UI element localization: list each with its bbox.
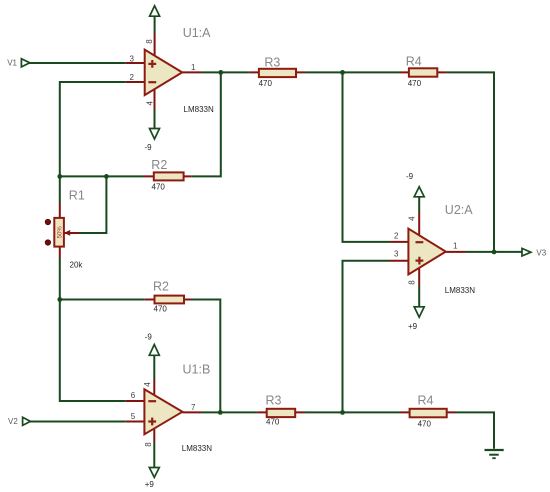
- pin U2:A pin3 stub: [390, 260, 408, 262]
- power +9 arrow below U2:A: [414, 307, 424, 317]
- svg-text:-9: -9: [145, 333, 153, 342]
- svg-text:1: 1: [453, 242, 458, 251]
- power +9 arrow above U1:A: [150, 6, 160, 16]
- svg-text:470: 470: [418, 420, 432, 429]
- svg-text:470: 470: [266, 418, 280, 427]
- svg-text:U2:A: U2:A: [445, 203, 473, 217]
- svg-text:R4: R4: [406, 55, 422, 69]
- junction R3/R4 top node: [340, 70, 345, 75]
- svg-text:3: 3: [394, 250, 399, 259]
- wire U1:B +9 power stem: [153, 442, 155, 468]
- potentiometer R1 terminal dot bottom: [45, 240, 50, 245]
- svg-text:R2: R2: [153, 279, 169, 293]
- wire U1:B -9 power stem: [153, 355, 155, 379]
- potentiometer R1 terminal dot top: [45, 219, 50, 224]
- wire R2 top right to U1:A output column: [191, 72, 221, 176]
- wire U1:A +9 power stem: [154, 16, 156, 33]
- pin U2:A pin8 stub: [418, 268, 420, 286]
- resistor R3 bottom: [267, 409, 296, 417]
- wire R1 wiper to node: [79, 176, 106, 233]
- pin U1:B pin4 stub: [153, 380, 155, 396]
- svg-text:3: 3: [130, 55, 135, 64]
- terminal V2: [23, 417, 31, 425]
- wire U2:A +9 power stem: [418, 286, 420, 307]
- wire U1:A -9 power stem: [154, 110, 156, 129]
- wire U2:A output to V3: [466, 251, 522, 253]
- svg-text:4: 4: [146, 101, 155, 106]
- svg-text:V3: V3: [536, 248, 546, 257]
- svg-text:8: 8: [144, 442, 153, 447]
- svg-text:LM833N: LM833N: [184, 105, 214, 114]
- op-amp U1:A: [145, 50, 183, 96]
- wire R1 top branch: [59, 176, 61, 204]
- svg-text:R3: R3: [264, 56, 280, 70]
- pin R2 bottom stubs: [145, 299, 192, 301]
- wire U2:A -9 power stem: [418, 197, 420, 212]
- svg-text:LM833N: LM833N: [445, 286, 475, 295]
- wire U1:A pin2 feedback left column: [60, 82, 126, 176]
- pin R1 bottom stub: [59, 246, 61, 258]
- wire R3 bottom to R4 bottom: [305, 411, 401, 413]
- pin U1:A pin1 output stub: [182, 71, 201, 73]
- svg-text:50%: 50%: [58, 226, 64, 239]
- svg-text:LM833N: LM833N: [182, 444, 212, 453]
- svg-text:6: 6: [131, 391, 136, 400]
- op-amp U1:B: [144, 389, 182, 434]
- ground symbol: [485, 450, 504, 458]
- wire R4 bottom right to ground: [456, 412, 494, 448]
- svg-text:-9: -9: [406, 172, 414, 181]
- svg-text:U1:A: U1:A: [183, 26, 211, 40]
- svg-text:470: 470: [408, 79, 422, 88]
- pin R1 wiper stub: [64, 232, 79, 234]
- wire R2 bottom right to U1:B output column: [192, 300, 221, 413]
- svg-text:R1: R1: [69, 188, 85, 202]
- pin R3 top stubs: [249, 71, 305, 73]
- resistor R2 top: [154, 172, 184, 180]
- wire V2 to U1:B pin5: [30, 421, 126, 423]
- pin U1:B pin5 stub: [126, 421, 145, 423]
- resistor R2 bottom: [155, 296, 185, 304]
- svg-text:4: 4: [143, 382, 152, 387]
- resistor R4 bottom: [410, 409, 447, 418]
- pin U1:A pin3 stub: [126, 62, 145, 64]
- wire V1 to U1:A pin3: [30, 62, 126, 64]
- wire R3 top to R4 top: [306, 71, 400, 73]
- svg-text:+9: +9: [145, 480, 155, 489]
- pin U2:A pin4 stub: [418, 212, 420, 235]
- pin R4 top stubs: [400, 71, 447, 73]
- svg-text:8: 8: [408, 280, 417, 285]
- terminal V3: [522, 248, 531, 256]
- svg-text:5: 5: [131, 412, 136, 421]
- junction U1:A output node: [218, 70, 223, 75]
- wire node row y=176 to R2 top: [60, 175, 144, 177]
- junction R1/R2/U1:B pin6 node: [57, 297, 62, 302]
- wire node to U2:A pin2: [343, 72, 391, 242]
- svg-text:470: 470: [154, 305, 168, 314]
- terminal V1: [21, 59, 29, 67]
- power -9 arrow below U1:A: [150, 129, 160, 140]
- junction U1:A pin2/R1/R2 node: [57, 174, 62, 179]
- pin R4 bottom stubs: [400, 411, 456, 413]
- pin U1:B pin7 output stub: [182, 411, 201, 413]
- svg-text:R2: R2: [151, 158, 167, 172]
- pin R3 bottom stubs: [257, 411, 304, 413]
- pin U2:A pin1 output stub: [446, 251, 466, 253]
- wire U2:A pin3 to bottom node: [343, 261, 391, 413]
- pin U1:A pin2 stub: [126, 81, 145, 83]
- junction R3/R4 bottom node: [340, 410, 345, 415]
- svg-text:20k: 20k: [70, 261, 84, 270]
- svg-text:2: 2: [394, 232, 399, 241]
- power -9 arrow above U1:B: [149, 345, 159, 356]
- svg-text:4: 4: [407, 216, 416, 221]
- junction U2:A output node: [492, 250, 497, 255]
- pin U2:A pin2 stub: [390, 241, 408, 243]
- svg-text:8: 8: [145, 39, 154, 44]
- wire node down to U1:B pin6: [60, 300, 126, 402]
- wire R4 top right to U2:A output node: [446, 72, 494, 252]
- power -9 arrow above U2:A: [414, 187, 424, 197]
- svg-text:2: 2: [130, 73, 135, 82]
- svg-text:1: 1: [191, 63, 196, 72]
- svg-text:470: 470: [259, 79, 273, 88]
- svg-text:U1:B: U1:B: [183, 362, 211, 376]
- junction R1 wiper node: [104, 174, 109, 179]
- pin U1:B pin6 stub: [126, 400, 145, 402]
- wire node row y=299 to R2 bottom: [60, 299, 145, 301]
- wire R1 bottom branch: [59, 258, 61, 300]
- pin R2 top stubs: [144, 175, 191, 177]
- op-amp U2:A: [408, 229, 445, 275]
- pin U1:A pin8 stub: [154, 34, 156, 57]
- svg-text:7: 7: [191, 403, 196, 412]
- svg-text:V1: V1: [7, 58, 17, 67]
- power +9 arrow below U1:B: [149, 468, 159, 478]
- svg-text:V2: V2: [8, 417, 18, 426]
- resistor R3 top: [259, 69, 296, 77]
- pin R1 top stub: [59, 204, 61, 218]
- wire U1:B output to R3 bottom: [202, 411, 258, 413]
- svg-text:470: 470: [152, 183, 166, 192]
- resistor R4 top: [409, 68, 437, 76]
- pin U1:B pin8 stub: [153, 429, 155, 442]
- svg-text:+9: +9: [408, 322, 418, 331]
- pin U1:A pin4 stub: [154, 89, 156, 109]
- svg-text:-9: -9: [145, 143, 153, 152]
- wire U1:A output to R3 top: [202, 71, 250, 73]
- junction U1:B output node: [218, 410, 223, 415]
- potentiometer R1: [54, 218, 70, 247]
- svg-text:R4: R4: [418, 394, 434, 408]
- svg-text:R3: R3: [266, 393, 282, 407]
